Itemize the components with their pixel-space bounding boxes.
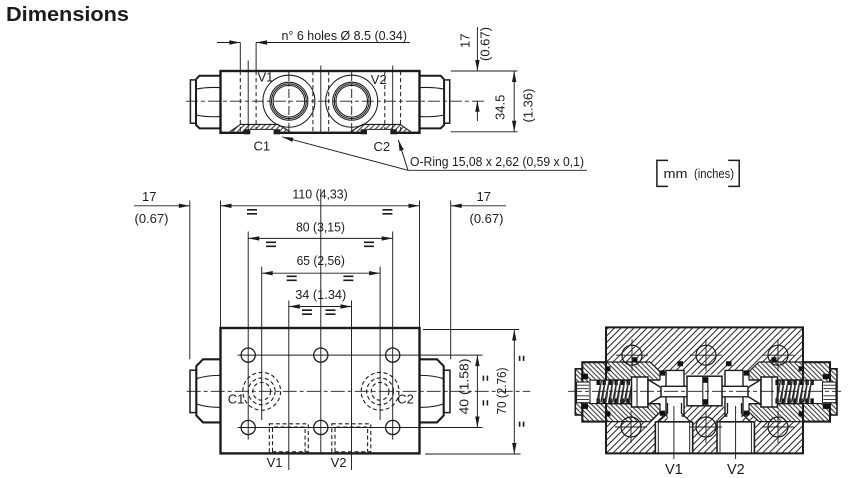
section: V1 port outline xyxy=(655,403,692,453)
front: 6 mounting holes xyxy=(241,348,400,435)
section: right cartridge sleeve bottom xyxy=(749,404,803,422)
svg-text:V1: V1 xyxy=(258,70,274,85)
section: V2 leader xyxy=(735,406,737,459)
front: right plug hex body xyxy=(420,359,444,422)
section: block outline xyxy=(606,327,803,453)
section: spring chamber outline left xyxy=(589,380,660,403)
front: left plug hex body xyxy=(196,359,220,422)
svg-text:(0.67): (0.67) xyxy=(470,211,504,226)
dim n.6 holes: lines and extensions xyxy=(217,43,410,71)
top view: horizontal axis centerline xyxy=(186,100,484,102)
svg-text:V2: V2 xyxy=(727,462,745,478)
svg-text:65 (2,56): 65 (2,56) xyxy=(297,253,345,268)
top view: C1 o-ring groove xyxy=(228,123,292,133)
top view: hidden hole walls left xyxy=(240,71,400,133)
section: axis centerline xyxy=(568,390,841,392)
top view: hole centerlines xyxy=(248,61,393,133)
svg-text:mm: mm xyxy=(664,166,688,181)
section: V2 port outline xyxy=(717,403,754,453)
o-ring sections C1 (black) xyxy=(244,129,250,134)
svg-text:(0.67): (0.67) xyxy=(135,211,169,226)
section: right plug end cap xyxy=(830,369,837,415)
section: left plug bore white xyxy=(589,380,608,403)
front: dimension lines top chains xyxy=(134,206,506,307)
section: V1 seat slab xyxy=(666,370,684,416)
section: bolt hole circles xyxy=(621,345,788,437)
section: left stem xyxy=(661,386,687,397)
top view: V1 vertical centerline xyxy=(288,72,290,132)
top view: right plug hex body xyxy=(420,76,445,129)
dim 17 vertical (top right) xyxy=(476,27,478,121)
section: hatch patches near seat slabs xyxy=(660,362,668,371)
top view: C2 o-ring groove xyxy=(348,123,413,133)
top view: left plug end cap xyxy=(190,80,196,123)
svg-text:34.5: 34.5 xyxy=(493,95,508,120)
front: C2 dashed circles xyxy=(361,372,399,410)
o-ring leader lines xyxy=(282,137,587,170)
svg-text:C1: C1 xyxy=(228,392,245,407)
section: right poppet xyxy=(761,377,778,407)
svg-text:80 (3,15): 80 (3,15) xyxy=(296,219,345,234)
section: seals black xyxy=(581,357,829,416)
front: V1 dashed port rectangle xyxy=(269,424,308,452)
svg-text:C2: C2 xyxy=(374,139,391,154)
mm/inches legend box xyxy=(657,160,739,186)
section: left poppet cone xyxy=(648,380,661,405)
front view equal-spacing marks xyxy=(247,210,524,427)
section: spring chamber outline right xyxy=(749,380,823,403)
svg-text:(1.36): (1.36) xyxy=(521,89,536,123)
section: left cartridge sleeve top xyxy=(606,362,660,380)
svg-text:V2: V2 xyxy=(371,72,387,87)
svg-text:34 (1.34): 34 (1.34) xyxy=(295,287,346,302)
section: right poppet cone xyxy=(748,380,761,405)
svg-text:V2: V2 xyxy=(331,455,347,470)
section: right plug socket xyxy=(823,382,837,403)
top view: right plug end cap xyxy=(444,80,450,123)
section: hatch wedges above/below sleeve slants xyxy=(650,362,660,372)
svg-text:17: 17 xyxy=(458,34,473,48)
svg-text:n° 6 holes Ø 8.5 (0.34): n° 6 holes Ø 8.5 (0.34) xyxy=(282,28,408,43)
top view: V2 vertical centerline xyxy=(351,72,353,132)
svg-text:17: 17 xyxy=(142,189,156,204)
section: V2 seat slab xyxy=(725,370,743,416)
front: vertical extension/center lines xyxy=(190,189,451,470)
section: left plug end cap xyxy=(575,369,582,415)
section: right stem xyxy=(722,386,748,397)
front: left plug end cap xyxy=(190,370,196,412)
front: main axis centerline through C1 C2 xyxy=(187,390,531,392)
dim 34.5 vertical xyxy=(451,71,518,132)
section: bore cavities white xyxy=(605,362,804,453)
top view: port V2 circles xyxy=(326,75,378,127)
front: hole row centerlines xyxy=(238,343,483,440)
svg-text:C2: C2 xyxy=(397,392,414,407)
section: right spring xyxy=(775,380,813,404)
o-ring sections C2 (black) xyxy=(361,129,367,134)
section: left plug hex body xyxy=(582,362,606,421)
section: right plug bore white xyxy=(801,380,823,403)
section: central piston xyxy=(687,376,722,406)
section: V1 leader xyxy=(673,406,675,459)
svg-text:V1: V1 xyxy=(665,462,683,478)
section: hatched manifold block xyxy=(606,327,803,453)
svg-text:V1: V1 xyxy=(267,455,283,470)
section: left poppet xyxy=(632,377,649,407)
section: left spring xyxy=(597,380,635,404)
svg-text:110 (4,33): 110 (4,33) xyxy=(292,187,347,202)
svg-text:Dimensions: Dimensions xyxy=(6,3,129,26)
section: bolt hole crosshairs xyxy=(615,339,794,443)
svg-text:(0.67): (0.67) xyxy=(478,27,493,61)
section: right cartridge sleeve top xyxy=(749,362,803,380)
svg-text:40 (1.58): 40 (1.58) xyxy=(457,359,472,415)
front: right side dims 40 and 70 xyxy=(423,330,521,455)
front: body block xyxy=(221,328,420,453)
section: left cartridge sleeve bottom xyxy=(606,404,660,422)
front: V2 dashed port rectangle xyxy=(332,424,371,452)
top view: port V1 circles xyxy=(263,75,315,127)
front: right plug end cap xyxy=(444,370,450,412)
svg-text:17: 17 xyxy=(477,189,491,204)
top view: body block xyxy=(221,71,420,133)
svg-text:70 (2.76): 70 (2.76) xyxy=(494,368,509,415)
section: left plug socket xyxy=(577,382,591,403)
section: right plug hex body xyxy=(803,362,830,421)
svg-text:O-Ring 15,08 x 2,62 (0,59 x 0,: O-Ring 15,08 x 2,62 (0,59 x 0,1) xyxy=(410,154,584,169)
svg-text:C1: C1 xyxy=(254,139,271,154)
top view: left plug hex body xyxy=(196,76,221,129)
svg-text:(inches): (inches) xyxy=(694,166,734,181)
front: C1 dashed circles xyxy=(243,372,281,410)
